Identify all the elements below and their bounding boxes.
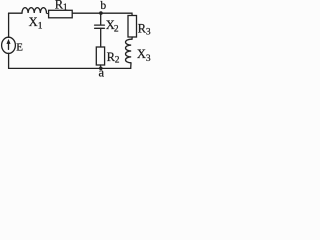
- label a: [99, 65, 105, 79]
- wire bottom rail: [9, 67, 131, 69]
- label R2: [107, 50, 120, 66]
- svg-text:3: 3: [146, 27, 151, 37]
- svg-text:E: E: [16, 41, 23, 53]
- label R1: [55, 0, 68, 13]
- wire left vertical upper: [8, 13, 10, 37]
- svg-text:X: X: [137, 47, 146, 61]
- wire top rail R1 to b to bend: [72, 13, 132, 15]
- resistor R1: [49, 10, 73, 17]
- label X1: [29, 15, 43, 32]
- svg-text:3: 3: [146, 54, 151, 64]
- label R3: [138, 22, 151, 38]
- capacitor X2: [95, 25, 105, 28]
- wire R2 to node a: [100, 65, 102, 68]
- source E: [2, 37, 16, 53]
- wire X3 to bottom rail: [130, 63, 132, 69]
- svg-text:2: 2: [114, 24, 119, 34]
- svg-text:2: 2: [115, 56, 120, 66]
- resistor R2: [96, 47, 104, 65]
- label X3: [137, 47, 151, 64]
- svg-text:1: 1: [38, 22, 43, 32]
- inductor X1: [22, 8, 48, 14]
- resistor R3: [128, 16, 137, 38]
- svg-text:b: b: [100, 0, 106, 12]
- wire capacitor to R2: [100, 28, 102, 47]
- svg-text:a: a: [99, 65, 105, 79]
- wire top-left segment: [9, 12, 22, 14]
- inductor X3: [125, 39, 131, 63]
- svg-text:1: 1: [63, 3, 68, 13]
- label X2: [106, 18, 119, 35]
- wire R3 to X3: [131, 37, 134, 39]
- label E: [16, 41, 23, 53]
- node a: [99, 67, 103, 71]
- node b: [99, 11, 103, 15]
- label b: [100, 0, 106, 12]
- wire left vertical lower: [8, 53, 10, 68]
- svg-text:X: X: [29, 15, 38, 29]
- wire b down to capacitor: [100, 13, 102, 25]
